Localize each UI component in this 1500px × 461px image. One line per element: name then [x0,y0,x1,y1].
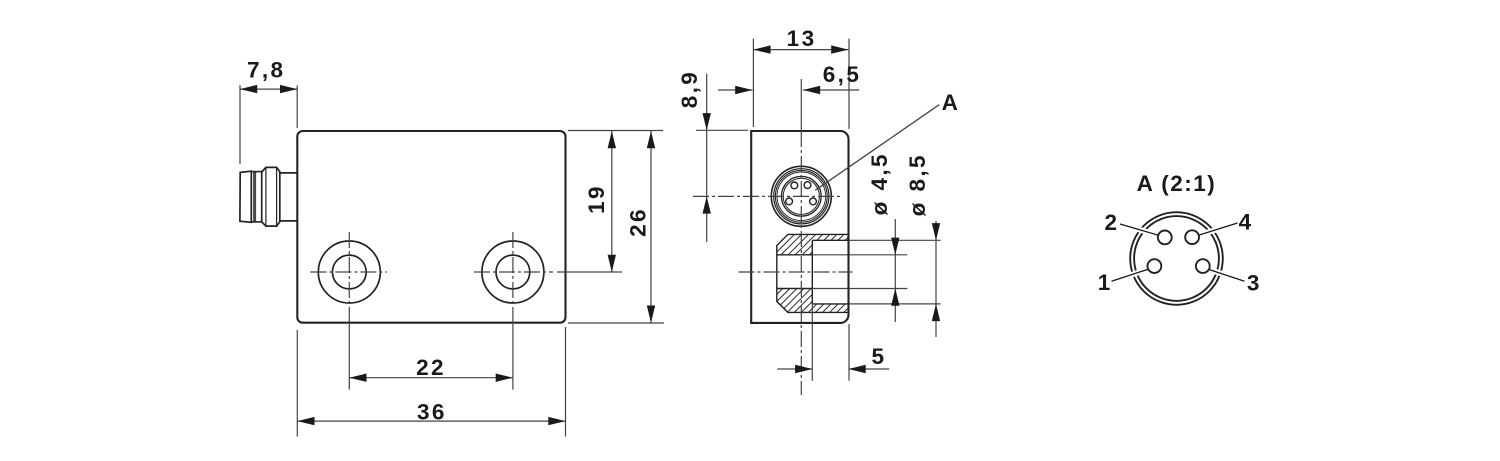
svg-text:8,9: 8,9 [677,70,702,108]
connector face: inner circle 2 [783,178,819,214]
centerline horizontal mounting hole [739,271,853,273]
mounting boss section: bore white [812,240,848,304]
dimension diam 4,5: dimension line [894,219,896,322]
counterbore floor line [811,240,813,304]
connector pin hole bottom-right [810,198,817,205]
dimension 19: dimension line [611,131,613,272]
mounting boss section: outline [777,234,849,312]
connector pin hole top-left [791,182,798,189]
dimension diam 8,5: dimension line [935,221,937,337]
bore 8,5 extension lines [849,239,941,241]
centerline vertical left hole [348,232,350,323]
dimension 19/26: top extension line [568,130,663,132]
svg-text:A: A [942,90,961,115]
M8 connector plug: threaded neck [280,172,298,174]
svg-text:22: 22 [416,355,446,380]
detail A leader line [815,105,939,191]
svg-text:19: 19 [584,184,609,214]
mounting hole right: outer circle [482,241,544,303]
connector face: outer thread circle [771,166,831,226]
detail pin 3 circle [1196,259,1210,273]
detail connector inner ring [1134,216,1219,301]
hole 4,5 top edge + extension [777,254,813,256]
dimension 5: extension lines [811,304,813,381]
dimension 8,9: dimension line [706,74,708,131]
svg-text:6,5: 6,5 [823,62,861,87]
detail pin 4 circle [1185,230,1199,244]
mounting boss section: hatched body [777,234,849,312]
dimension 7,8: dimension line [240,88,297,90]
svg-text:2: 2 [1104,210,1119,235]
dimension 22: dimension line [349,377,513,379]
connector face: ring 4 [777,172,826,221]
mounting hole right: inner circle [496,255,530,289]
dimension 26: dimension line [650,131,652,323]
connector face: ring 2 [774,169,829,224]
svg-text:3: 3 [1247,270,1262,295]
dimension 7,8: extension lines [239,85,241,164]
centerline horizontal connector [693,195,841,197]
dimension 8,9: top extension line [696,129,748,131]
mounting hole left: outer circle [318,241,380,303]
svg-text:1: 1 [1098,270,1113,295]
svg-text:13: 13 [787,26,817,51]
counterbore bore top edge [812,239,848,241]
pin 3 leader [1209,270,1245,282]
connector pin hole top-right [804,182,811,189]
pin 4 leader [1199,223,1238,235]
detail connector outer ring [1130,212,1223,305]
M8 connector plug: shadow stripe [253,172,256,222]
extension line for dim 19 (hole centerline) [557,271,622,273]
svg-text:ø 4,5: ø 4,5 [867,152,892,215]
centerline horizontal left hole [310,271,387,273]
centerline horizontal right hole [474,271,553,273]
extension line for dim 6,5 (connector centerline above body) [800,79,802,131]
connector face: ring 3 [775,170,827,222]
M8 connector plug: rear block [240,171,251,222]
detail pin 2 circle [1158,231,1172,245]
view 2: sensor body top view outline [751,131,848,323]
dimension 36: extension lines [296,330,298,437]
dimension 13: extension lines [752,39,754,127]
svg-text:5: 5 [871,344,886,369]
svg-text:A (2:1): A (2:1) [1137,171,1217,196]
mounting boss section: hole white [776,255,812,289]
connector pin hole bottom-left [786,198,793,205]
dimension 5: dimension line tails [777,368,812,370]
svg-text:26: 26 [626,207,651,237]
pin 2 leader [1120,224,1159,235]
M8 connector plug: knurled ring [262,167,280,226]
mounting hole left: inner circle [332,255,366,289]
dimension 13: dimension line [753,49,848,51]
detail pin 1 circle [1148,259,1162,273]
counterbore bore bottom edge [812,303,848,305]
svg-text:36: 36 [417,399,447,424]
M8 connector plug: neck lines [251,171,261,173]
centerline vertical right hole [512,232,514,323]
view 1: sensor body side view outline [297,131,565,323]
pin 1 leader [1112,269,1149,281]
extension line for dim 22 left [348,323,350,390]
svg-text:ø 8,5: ø 8,5 [905,153,930,216]
dimension 6,5: dimension line tails [718,89,752,91]
svg-text:4: 4 [1239,210,1254,235]
centerline vertical view 2 [800,131,802,395]
connector center dot [800,195,802,197]
dimension 26: bottom extension line [568,322,664,324]
extension line for dim 22 right [512,323,514,390]
svg-text:7,8: 7,8 [247,57,285,82]
connector face: inner circle 1 [781,176,821,216]
hole 4,5 bottom edge + extension [777,288,813,290]
dimension 36: dimension line [297,420,565,422]
